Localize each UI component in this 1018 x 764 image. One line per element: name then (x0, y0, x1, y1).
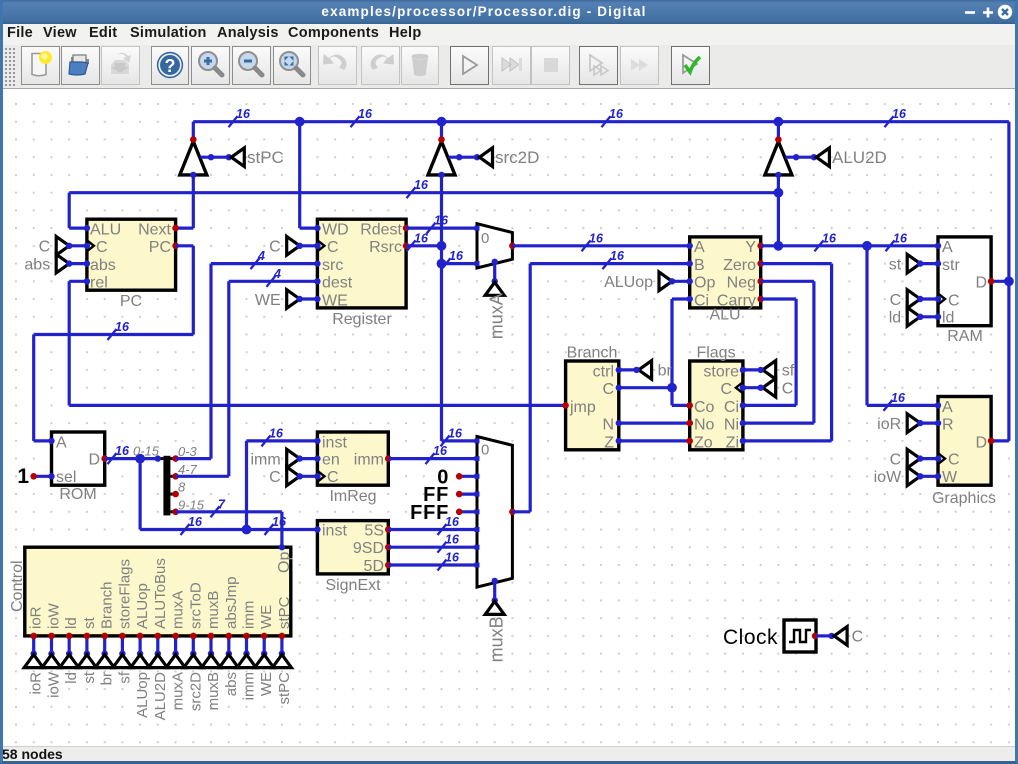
wire ld stub (920, 315, 938, 318)
wire src2D driver enable (449, 156, 478, 159)
tunnel tunnel sf (113, 655, 132, 668)
component ImReg (immediate register) (317, 432, 388, 485)
wire imregC stub (300, 475, 318, 478)
pin pc abs tip (66, 260, 72, 266)
pin ALU2D driver output (775, 136, 782, 143)
pin jmp out (562, 402, 569, 409)
bus width label 16 (438, 524, 447, 535)
tunnel tunnel br (95, 655, 114, 668)
pin imregC tip (297, 473, 303, 479)
pin input SignExt.inst (314, 526, 320, 532)
junction Ybus/ALU2D (774, 188, 784, 198)
pin input ROM.A (48, 438, 54, 444)
tunnel src2D (480, 148, 493, 167)
tunnel ALU2D (816, 148, 829, 167)
pin ROM D (101, 455, 108, 462)
tunnel C (imreg C) (287, 467, 300, 486)
wire up to ImReg inst (245, 441, 248, 530)
tunnel WE (reg WE) (287, 290, 300, 309)
tunnel tunnel abs (219, 655, 238, 668)
pin src2D driver en wire end (474, 154, 480, 160)
wire st stub (920, 262, 938, 265)
wire ALU2D driver to Y (777, 175, 780, 246)
pin Rsrc (403, 243, 410, 250)
junction bus/WD (295, 117, 305, 127)
wire const1 stub (34, 475, 52, 478)
pin ALU2D driver en wire end (811, 154, 817, 160)
wire ALU2D driver enable (785, 156, 814, 159)
pin splitter in (155, 455, 161, 461)
bus width label 16 (602, 116, 611, 127)
wire Rsrc net vertical (440, 175, 443, 441)
wire 4-7 right (176, 475, 229, 478)
pin input RAM.A (935, 243, 941, 249)
wire Carry to Ci (743, 404, 796, 407)
tunnel abs (pc abs) (56, 254, 69, 273)
wire to ALU B (530, 262, 690, 265)
tunnel tunnel muxA (166, 655, 185, 668)
wire Neg right (761, 280, 814, 283)
wire Ci down (670, 299, 673, 388)
pin PC out (172, 243, 179, 250)
bus width label 16 (426, 453, 435, 464)
pin/wire Control Branch (103, 636, 106, 654)
wire down to Graphics A (865, 246, 868, 406)
component Branch logic (566, 361, 619, 450)
bus width label 7 (211, 506, 220, 517)
bus width label 16 (438, 542, 447, 553)
tunnel tunnel stPC (272, 655, 291, 668)
wire ALUop stub (672, 280, 690, 283)
pin stPC driver output (190, 136, 197, 143)
wire right bus to Graphics D (991, 439, 1009, 442)
bus width label 16 (407, 240, 416, 251)
component Graphics adapter (938, 397, 991, 486)
tunnel tunnel ALUop (131, 655, 150, 668)
pin 5D (385, 562, 392, 569)
wire up to ALU B row (529, 264, 532, 512)
pin input RAM.str (935, 260, 941, 266)
wire src2D driver top to bus (440, 122, 443, 140)
tunnel tunnel st (77, 655, 96, 668)
bus width label 16 (438, 560, 447, 571)
pin input Reg.WE (314, 296, 320, 302)
wire vert to muxA in1 (442, 262, 478, 265)
tunnel C (clock) (834, 627, 847, 646)
wire const 0 stub (459, 475, 477, 478)
wire 5S to muxB (388, 528, 477, 531)
wire src wire (211, 262, 317, 265)
bus width label 16 (886, 240, 895, 251)
pin input ALU.B (687, 260, 693, 266)
pin const 1 out (30, 473, 37, 480)
wire muxB out (512, 510, 530, 513)
wire PC Next out (176, 227, 194, 230)
pin input Reg.WD (314, 225, 320, 231)
pin/wire Control ALUop (139, 636, 142, 654)
wire ioW stub (920, 475, 938, 478)
pin Neg (757, 278, 764, 285)
pin const 0 out (456, 473, 463, 480)
tunnel ioW (ioW) (907, 467, 920, 486)
wire clock wire (816, 634, 832, 637)
wire ALU2D driver top to bus (777, 122, 780, 140)
bus width label 4 (251, 258, 260, 269)
wire to ImReg inst (247, 439, 318, 442)
wire Branch C wire (619, 386, 672, 389)
pin const FF out (456, 491, 463, 498)
pin clockC tip (828, 633, 834, 639)
tunnel muxB sel tunnel (485, 601, 504, 614)
pin ioR tip (917, 420, 923, 426)
pin stPC driver input (190, 172, 196, 178)
pin/wire Control muxB (209, 636, 212, 654)
wire rel down (68, 281, 71, 405)
junction Ci junction (667, 383, 677, 393)
pin sf tip (758, 367, 764, 373)
pin input ALU.Op (687, 278, 693, 284)
wire N from Flags No (619, 422, 690, 425)
pin gfxC tip (917, 455, 923, 461)
wire ioR stub (920, 422, 938, 425)
wire Ci corner down (670, 388, 673, 406)
wire C stub (69, 244, 87, 247)
pin input ROM.sel (48, 473, 54, 479)
wire store to sf (743, 368, 761, 371)
component Flags register (690, 361, 743, 450)
tunnel tunnel ioR (24, 655, 43, 668)
wire instr bus j24 (140, 528, 317, 531)
pin 9SD (385, 544, 392, 551)
pin/wire Control ioR (32, 636, 35, 654)
tunnel ioR (ioR) (907, 414, 920, 433)
wire 4-7 up (227, 281, 230, 476)
pin flagsC tip (758, 385, 764, 391)
pin src2D driver en pin (456, 154, 462, 160)
wire PC Next up to stPC driver (192, 175, 195, 228)
wire flags C to tunnel (743, 386, 761, 389)
wire PC out stub (176, 244, 194, 247)
pin imm tip (297, 455, 303, 461)
pin muxB sel end (492, 597, 498, 603)
bus width label 16 (427, 223, 436, 234)
pin ld tip (917, 314, 923, 320)
pin Ci pin (740, 402, 746, 408)
junction instr junction (135, 454, 145, 464)
bus width label 16 (407, 187, 416, 198)
pin Zero (757, 260, 764, 267)
pin flags C pin (740, 385, 746, 391)
pin ALUop tip (669, 278, 675, 284)
junction muxA in1 tap (437, 259, 447, 269)
wire muxB sel (493, 581, 496, 601)
wire Rsrc to vertical (406, 244, 441, 247)
wire stPC driver enable (200, 156, 229, 159)
pin input PC.ALU (84, 225, 90, 231)
bus width label 16 (442, 258, 451, 269)
junction instr/ImReg (242, 525, 252, 535)
wire WD into Register (300, 227, 318, 230)
wire ROM D to splitter (105, 457, 158, 460)
component ALU (690, 237, 761, 308)
wire Z from Flags Zo (619, 439, 690, 442)
tunnel tunnel muxB (202, 655, 221, 668)
wire PC out left j13 (34, 333, 194, 336)
pin/wire Control stPC (280, 636, 283, 654)
bus width label 16 (582, 240, 591, 251)
bus width label 16 (351, 116, 360, 127)
pin/wire Control srcToD (192, 636, 195, 654)
pin input Gfx.W (935, 473, 941, 479)
wire WD drop (298, 122, 301, 228)
wire abs stub (69, 262, 87, 265)
wire top bus (193, 120, 1009, 123)
bus width label 16 (265, 524, 274, 535)
multiplexer muxB (477, 437, 512, 588)
tunnel C (ram C) (907, 290, 920, 309)
wire const FF stub (459, 493, 477, 496)
driver stPC driver (180, 142, 207, 175)
pin const FFF out (456, 509, 463, 516)
wire imm stub (300, 457, 318, 460)
wire 5D to muxB (388, 563, 477, 566)
pin splitter out 0-3 (172, 455, 179, 462)
pin/wire Control absJmp (227, 636, 230, 654)
pin/wire Control ld (68, 636, 71, 654)
junction bus/RAM D (1004, 276, 1014, 286)
tunnel tunnel ioW (42, 655, 61, 668)
pin/wire Control storeFlags (121, 636, 124, 654)
pin input PC.C (84, 243, 90, 249)
pin store pin (740, 367, 746, 373)
wire rel stub (69, 280, 87, 283)
pin input Reg.src (314, 260, 320, 266)
pin stPC driver en wire end (226, 154, 232, 160)
junction Y/graphics (862, 241, 872, 251)
pin Zo (686, 438, 693, 445)
wire left down to ROM A (32, 335, 35, 441)
pin/wire Control imm (245, 636, 248, 654)
wire 9SD to muxB (388, 546, 477, 549)
tunnel tunnel ALU2D (148, 655, 167, 668)
component ROM (program memory) (52, 432, 105, 485)
wire Zero right (761, 262, 832, 265)
pin Graphics D (988, 438, 995, 445)
pin Rdest (403, 225, 410, 232)
bus width label 16 (108, 453, 117, 464)
pin clock out (812, 633, 819, 640)
pin splitter out 4-7 (172, 473, 179, 480)
wire Zero to Zi (743, 439, 832, 442)
pin input Gfx.R (935, 420, 941, 426)
wire WE stub (300, 297, 318, 300)
wire ALU Y bus (69, 191, 778, 194)
wire into PC ALU pin (69, 227, 87, 230)
pin muxA sel pin (492, 259, 498, 265)
pin No (686, 420, 693, 427)
pin RAM D (988, 278, 995, 285)
pin input RAM.ld (935, 314, 941, 320)
tunnel imm (imreg imm) (287, 449, 300, 468)
wire right side bus down (1007, 122, 1010, 441)
wire Carry down (794, 299, 797, 405)
tunnel ld (ld) (907, 308, 920, 327)
pin PC Next (172, 225, 179, 232)
pin splitter out 8 (172, 491, 179, 498)
wire to Flags Co (672, 404, 690, 407)
multiplexer muxA (477, 224, 512, 268)
tunnel C (pc clock) (56, 237, 69, 256)
pin src2D driver input (438, 172, 444, 178)
wire Y bus to PC ALU corner (68, 193, 71, 228)
wire Y to RAM A (761, 244, 938, 247)
tunnel tunnel src2D (184, 655, 203, 668)
tunnel tunnel imm (237, 655, 256, 668)
junction Y/driver (774, 241, 784, 251)
pin/wire Control ioW (50, 636, 53, 654)
pin ctrl pin (616, 367, 622, 373)
pin input PC.rel (84, 278, 90, 284)
pin input ImReg.C (314, 473, 320, 479)
component Register file (317, 219, 406, 308)
pin/wire Control st (85, 636, 88, 654)
pin src2D driver output (438, 136, 445, 143)
wire RAM D to right bus (991, 280, 1009, 283)
pin branch C pin (616, 385, 622, 391)
tunnel stPC (231, 148, 244, 167)
wire dest wire (229, 280, 318, 283)
pin ALU2D driver input (775, 172, 781, 178)
pin input ALU.A (687, 243, 693, 249)
tunnel st (st) (907, 254, 920, 273)
tunnel ALUop (ALUop) (659, 272, 672, 291)
pin Carry (757, 296, 764, 303)
bus width label 16 (884, 400, 893, 411)
pin pc C tip (66, 243, 72, 249)
pin/wire Control muxA (174, 636, 177, 654)
wire Graphics A wire (867, 404, 938, 407)
wire stPC driver top to bus (192, 122, 195, 140)
pin/wire Control ALUToBus (156, 636, 159, 654)
pin input Gfx.A (935, 402, 941, 408)
pin/wire Control WE (263, 636, 266, 654)
wire Neg down (812, 281, 815, 423)
pin branch Z pin (616, 438, 622, 444)
pin stPC driver en pin (208, 154, 214, 160)
wire imm to muxB (388, 457, 477, 460)
wire const FFF stub (459, 510, 477, 513)
component Clock (784, 620, 816, 652)
pin reg WE tip (297, 296, 303, 302)
wire jmp bus j17 (69, 404, 565, 407)
pin input Reg.C (314, 243, 320, 249)
bus width label 16 (441, 435, 450, 446)
junction Rsrc/vert (437, 241, 447, 251)
component Control (control unit) (25, 547, 291, 636)
pin ramC tip (917, 296, 923, 302)
splitter 16 -> 0-3,4-7,8,9-15 (163, 456, 170, 516)
pin muxB sel pin (492, 578, 498, 584)
pin reg C tip (297, 243, 303, 249)
junction bus/src2D (437, 117, 447, 127)
tunnel br (br) (639, 361, 652, 380)
wire ALU Ci stub (672, 297, 690, 300)
wire muxA sel (493, 262, 496, 282)
pin br tip (633, 367, 639, 373)
pin Op pin (279, 544, 285, 550)
pin muxA sel end (492, 278, 498, 284)
bus width label 16 (885, 116, 894, 127)
tunnel C (flags C) (763, 378, 776, 397)
wire PC out down (192, 246, 195, 335)
pin Ni pin (740, 420, 746, 426)
pin input ALU.Ci (687, 296, 693, 302)
wire 9-15 down to Op (280, 512, 283, 547)
wire 9-15 right (176, 510, 282, 513)
bus width label 4 (267, 276, 276, 287)
component PC (program counter) (87, 219, 176, 290)
bus width label 16 (262, 435, 271, 446)
tunnel C (gfx C) (907, 449, 920, 468)
pin muxB out (509, 509, 516, 516)
pin input ImReg.en (314, 455, 320, 461)
bus width label 16 (229, 116, 238, 127)
bus width label 16 (108, 329, 117, 340)
pin muxA out (509, 243, 516, 250)
wire ramC stub (920, 297, 938, 300)
pin Co (686, 402, 693, 409)
bus width label 16 (815, 240, 824, 251)
wire 0-3 up (209, 264, 212, 459)
junction bus/ALU2D (774, 117, 784, 127)
tunnel tunnel ld (60, 655, 79, 668)
tunnel muxA sel tunnel (485, 282, 504, 295)
wire muxA out to ALU A (512, 244, 689, 247)
driver ALU2D driver (765, 142, 792, 175)
component SignExt (sign extender) (317, 521, 388, 574)
pin ioW tip (917, 473, 923, 479)
wire Neg to Ni (743, 422, 814, 425)
wire Zero down (830, 264, 833, 441)
pin ImReg imm (385, 455, 392, 462)
pin st tip (917, 260, 923, 266)
wire C stub (300, 244, 318, 247)
wire Carry right (761, 297, 796, 300)
pin Y (757, 243, 764, 250)
tunnel tunnel WE (255, 655, 274, 668)
wire gfxC stub (920, 457, 938, 460)
pin 5S (385, 526, 392, 533)
pin input Reg.dest (314, 278, 320, 284)
wire into ROM A (34, 439, 52, 442)
driver src2D driver (428, 142, 455, 175)
wire instr down (139, 459, 142, 530)
pin input RAM.C (935, 296, 941, 302)
tunnel C (reg clock) (287, 237, 300, 256)
pin input PC.abs (84, 260, 90, 266)
pin Zi pin (740, 438, 746, 444)
pin splitter out 9-15 (172, 509, 179, 516)
bus width label 16 (181, 524, 190, 535)
pin ALU2D driver en pin (793, 154, 799, 160)
pin input Gfx.C (935, 455, 941, 461)
pin input ImReg.inst (314, 438, 320, 444)
wire Rsrc net to muxB in0 (442, 439, 478, 442)
wire 0-3 right (176, 457, 211, 460)
tunnel sf (sf) (763, 361, 776, 380)
component RAM (938, 237, 991, 326)
bus width label 16 (603, 258, 612, 269)
